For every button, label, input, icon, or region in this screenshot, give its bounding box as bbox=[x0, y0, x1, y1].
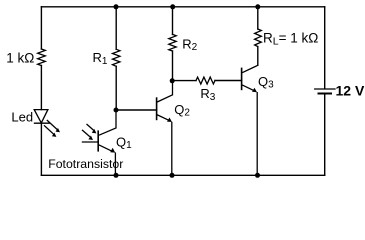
svg-text:R2: R2 bbox=[182, 37, 197, 54]
svg-text:R3: R3 bbox=[200, 86, 215, 103]
svg-text:Fototransistor: Fototransistor bbox=[48, 157, 123, 171]
svg-text:Q1: Q1 bbox=[116, 135, 132, 152]
svg-text:RL= 1 kΩ: RL= 1 kΩ bbox=[263, 31, 318, 48]
svg-text:R1: R1 bbox=[93, 50, 108, 67]
svg-text:Led: Led bbox=[11, 110, 33, 125]
svg-text:1 kΩ: 1 kΩ bbox=[6, 51, 34, 66]
svg-text:Q2: Q2 bbox=[174, 102, 190, 119]
svg-text:12 V: 12 V bbox=[336, 82, 365, 98]
svg-text:Q3: Q3 bbox=[258, 74, 274, 91]
